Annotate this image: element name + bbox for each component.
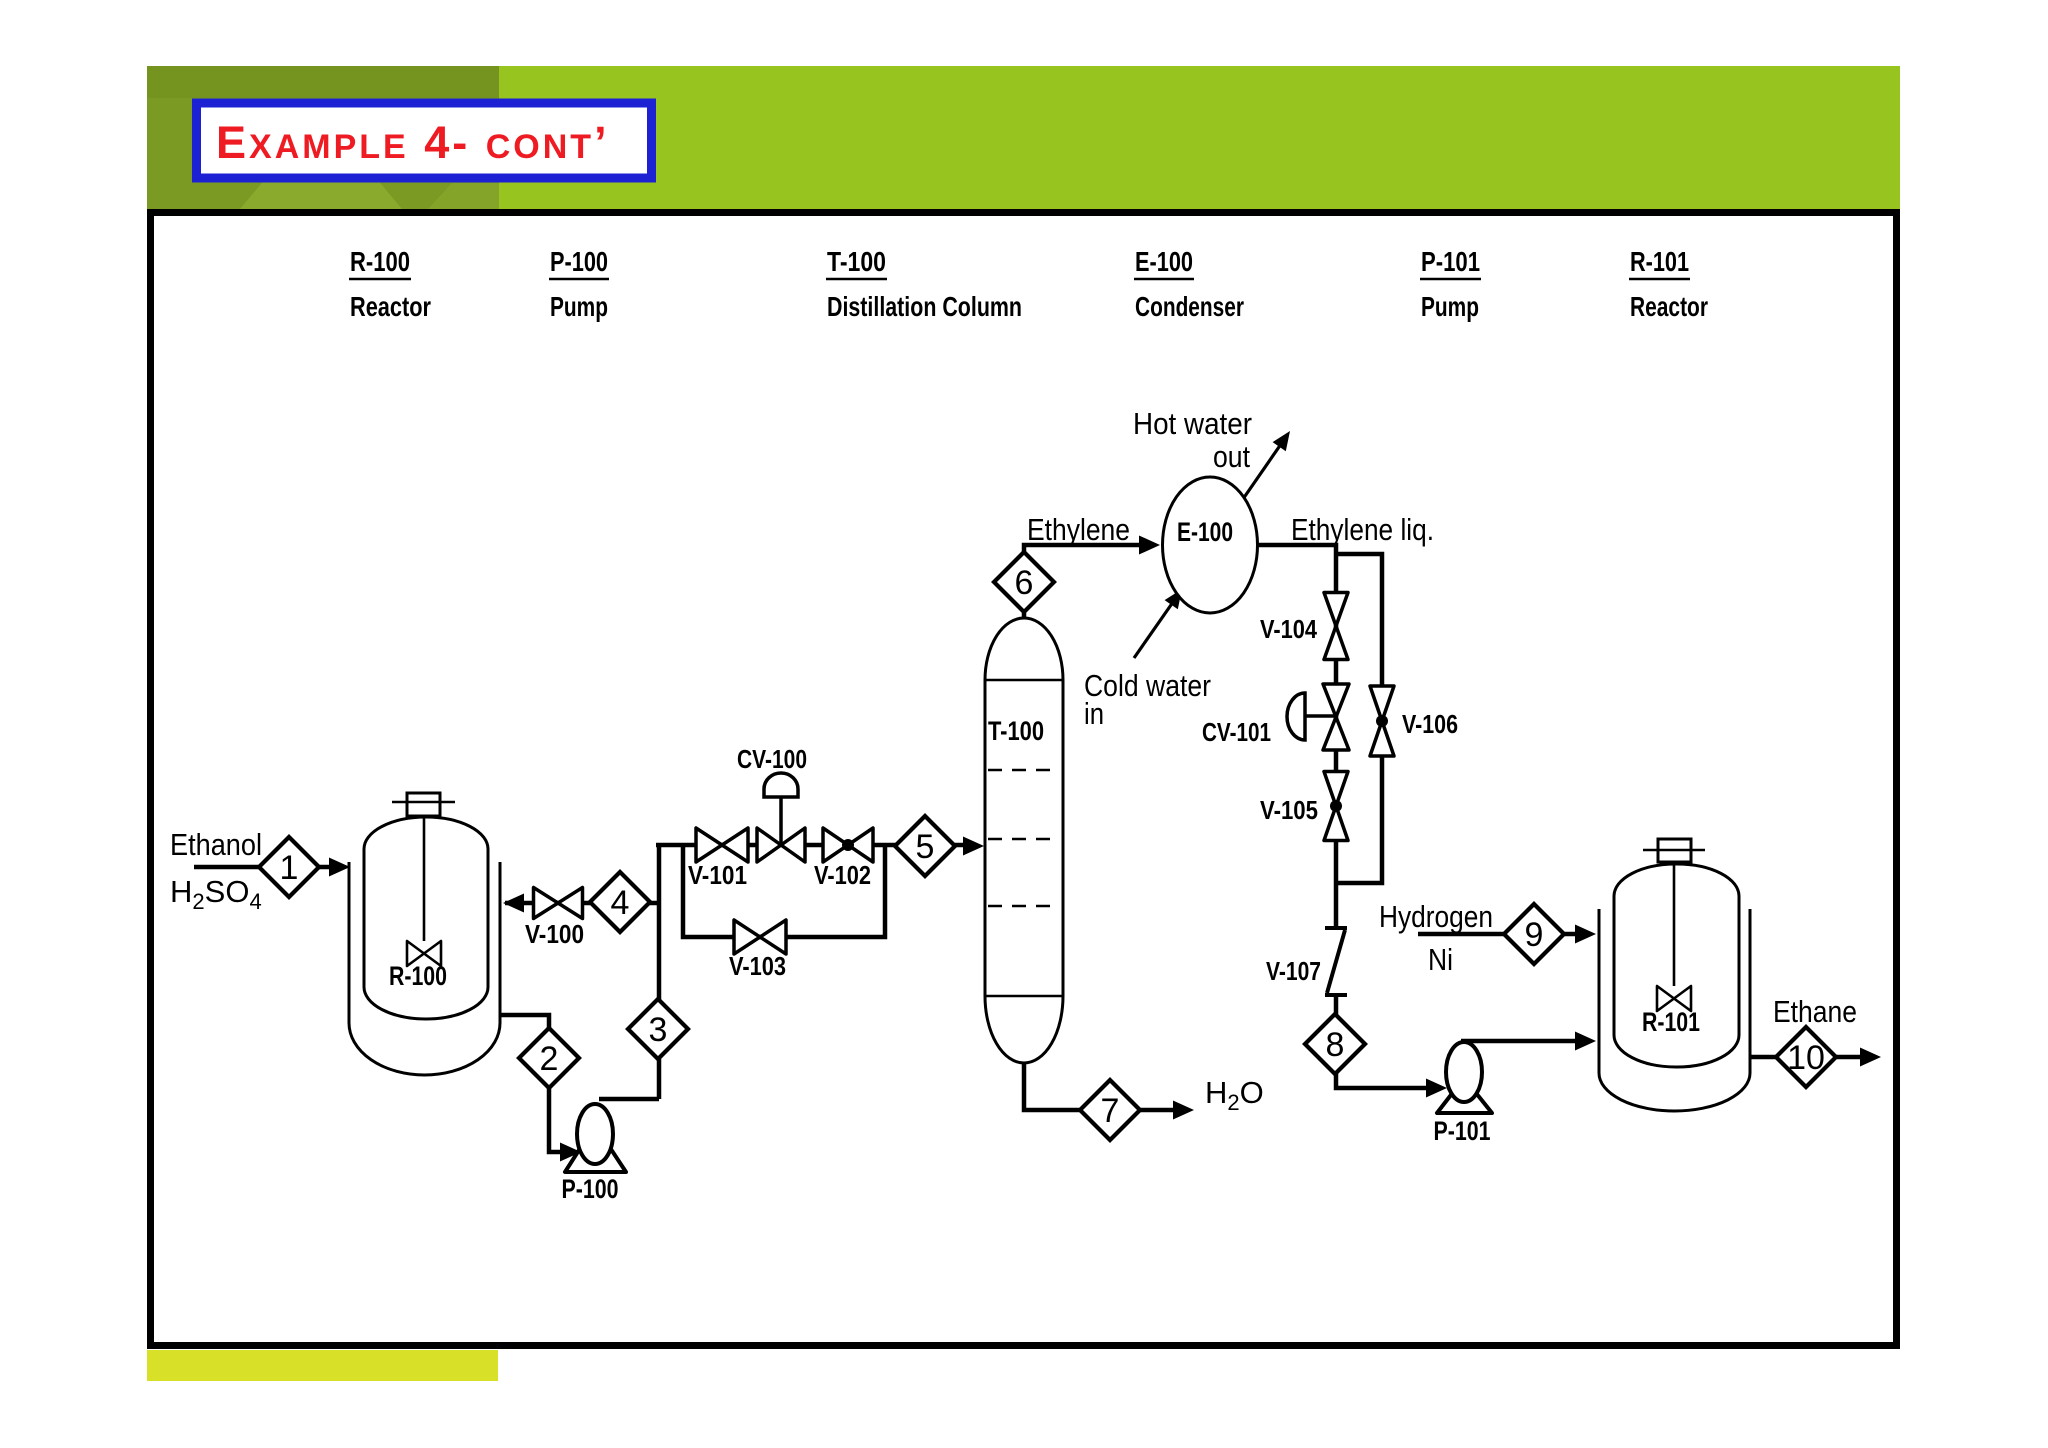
svg-text:3: 3 xyxy=(649,1011,668,1049)
svg-text:Hydrogen: Hydrogen xyxy=(1379,899,1493,934)
valve V-102 xyxy=(823,828,873,862)
wire V-100 recycle line into R-100 xyxy=(505,901,659,906)
node stream 7 xyxy=(1080,1080,1140,1140)
reactor R-100 vessel body xyxy=(364,817,488,1019)
svg-text:R-100: R-100 xyxy=(350,246,410,277)
diagram border frame xyxy=(151,213,1897,1346)
svg-text:H2O: H2O xyxy=(1205,1075,1264,1115)
reactor R-101 motor xyxy=(1658,839,1691,862)
svg-text:E-100: E-100 xyxy=(1135,246,1193,277)
wire column bottoms to H2O xyxy=(1024,1060,1178,1110)
valve V-100 xyxy=(534,888,583,919)
condenser E-100 xyxy=(1163,477,1258,613)
svg-text:4: 4 xyxy=(611,884,630,922)
control valve CV-101 xyxy=(1323,684,1349,750)
svg-text:Ethane: Ethane xyxy=(1773,994,1857,1029)
svg-text:V-102: V-102 xyxy=(814,860,871,890)
svg-text:9: 9 xyxy=(1525,916,1544,954)
banner dark olive block xyxy=(147,66,499,209)
svg-text:Ni: Ni xyxy=(1428,942,1453,977)
pump P-101 xyxy=(1437,1078,1492,1113)
valve V-105 xyxy=(1324,772,1348,841)
node stream 4 xyxy=(590,872,650,932)
svg-text:7: 7 xyxy=(1101,1092,1120,1130)
reactor R-100 agitator shaft xyxy=(423,816,426,941)
wire R-101 outlet ethane xyxy=(1750,1055,1866,1060)
svg-text:V-105: V-105 xyxy=(1260,795,1318,825)
svg-text:Reactor: Reactor xyxy=(350,291,431,322)
svg-text:P-101: P-101 xyxy=(1421,246,1480,277)
wire column overhead to E-100 xyxy=(1024,545,1145,620)
wire V-106 bypass loop xyxy=(1336,554,1382,883)
valve V-101 xyxy=(696,828,748,862)
break symbol V-107 xyxy=(1325,928,1347,995)
svg-text:Pump: Pump xyxy=(550,291,608,322)
reactor R-100 impeller xyxy=(407,941,441,966)
valve V-104 xyxy=(1324,593,1348,660)
svg-text:2: 2 xyxy=(540,1040,559,1078)
title box xyxy=(197,103,652,178)
svg-text:R-100: R-100 xyxy=(389,961,447,991)
reactor R-100 motor xyxy=(407,793,440,816)
svg-text:H2SO4: H2SO4 xyxy=(170,874,262,914)
svg-text:Distillation Column: Distillation Column xyxy=(827,291,1022,322)
svg-text:V-101: V-101 xyxy=(688,860,747,890)
distillation column T-100 xyxy=(985,618,1063,1063)
column trays (dashed) xyxy=(988,770,1060,906)
wire stream 1 ethanol feed xyxy=(194,865,332,870)
svg-text:P-101: P-101 xyxy=(1434,1116,1491,1146)
wire vertical main x659 pump discharge riser xyxy=(599,843,659,1099)
svg-text:P-100: P-100 xyxy=(550,246,608,277)
svg-text:Condenser: Condenser xyxy=(1135,291,1244,322)
wire bypass V-103 loop xyxy=(683,845,885,937)
svg-text:10: 10 xyxy=(1787,1039,1825,1077)
svg-text:V-104: V-104 xyxy=(1260,614,1317,644)
valve V-103 xyxy=(734,920,786,954)
bottom yellow-green bar xyxy=(147,1350,498,1381)
svg-text:out: out xyxy=(1213,439,1250,474)
svg-text:8: 8 xyxy=(1326,1026,1345,1064)
svg-text:CV-101: CV-101 xyxy=(1202,717,1271,747)
reactor R-101 impeller xyxy=(1657,986,1691,1011)
wire CV-100 stem xyxy=(779,795,783,845)
svg-text:T-100: T-100 xyxy=(988,716,1044,746)
node stream 3 xyxy=(628,999,688,1059)
svg-text:R-101: R-101 xyxy=(1642,1007,1700,1037)
reactor R-100 jacket xyxy=(349,862,500,1075)
svg-text:5: 5 xyxy=(916,828,935,866)
svg-text:V-106: V-106 xyxy=(1402,709,1458,739)
reactor R-101 agitator shaft xyxy=(1673,863,1676,986)
node stream 6 xyxy=(994,552,1054,612)
node stream 9 xyxy=(1504,904,1564,964)
node stream 8 xyxy=(1305,1014,1365,1074)
wire E-100 outlet ethylene liq. main drop xyxy=(1258,545,1336,926)
wire P-101 discharge to R-101 xyxy=(1461,1039,1581,1044)
node stream 10 xyxy=(1776,1027,1836,1087)
wire main line to column with arrow into T-100 xyxy=(656,843,967,848)
svg-text:CV-100: CV-100 xyxy=(737,744,807,774)
svg-text:Reactor: Reactor xyxy=(1630,291,1708,322)
svg-text:R-101: R-101 xyxy=(1630,246,1689,277)
banner light green block xyxy=(499,66,1900,209)
pump P-100 xyxy=(565,1125,626,1172)
wire R-100 bottoms to diamond2 to pump suction xyxy=(500,1015,566,1152)
svg-text:Hot water: Hot water xyxy=(1133,406,1252,441)
svg-text:V-103: V-103 xyxy=(729,951,786,981)
svg-text:V-107: V-107 xyxy=(1266,956,1321,986)
reactor R-101 jacket xyxy=(1599,909,1750,1111)
svg-text:E-100: E-100 xyxy=(1177,517,1233,547)
svg-text:6: 6 xyxy=(1015,564,1034,602)
node stream 2 xyxy=(519,1028,579,1088)
svg-text:Ethanol: Ethanol xyxy=(170,827,262,862)
wire V-107 to diamond8 to P-101 suction xyxy=(1336,995,1432,1088)
control valve CV-100 xyxy=(757,828,805,862)
svg-text:Ethylene: Ethylene xyxy=(1027,512,1130,547)
node stream 1 xyxy=(259,837,319,897)
hot water out arrow xyxy=(1243,446,1280,500)
valve V-106 xyxy=(1370,686,1394,756)
svg-text:T-100: T-100 xyxy=(827,246,886,277)
svg-text:P-100: P-100 xyxy=(562,1174,619,1204)
svg-text:Pump: Pump xyxy=(1421,291,1479,322)
wire stream 9 hydrogen feed xyxy=(1418,932,1581,937)
cold water in arrow xyxy=(1134,604,1172,659)
reactor R-101 vessel body xyxy=(1614,864,1739,1067)
svg-text:V-100: V-100 xyxy=(525,919,584,949)
node stream 5 xyxy=(895,816,955,876)
svg-text:Ethylene liq.: Ethylene liq. xyxy=(1291,512,1434,547)
svg-text:in: in xyxy=(1084,696,1104,731)
svg-text:1: 1 xyxy=(280,849,299,887)
